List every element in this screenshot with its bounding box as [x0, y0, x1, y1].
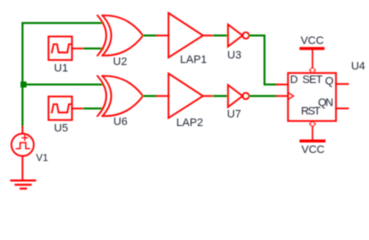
svg-text:U1: U1 — [54, 63, 68, 75]
wire U5 output stub — [72, 108, 84, 110]
XOR gate U6 — [98, 76, 144, 116]
VCC symbol bottom (RST) — [301, 121, 324, 141]
junction dot — [21, 82, 27, 88]
svg-text:SET: SET — [302, 74, 322, 86]
svg-text:QN: QN — [318, 97, 333, 109]
clock input triangle — [288, 93, 294, 100]
wire top horizontal to U2 top input — [23, 22, 104, 24]
ground — [11, 181, 35, 189]
svg-text:VCC: VCC — [301, 144, 324, 156]
svg-text:U4: U4 — [351, 61, 365, 73]
buffer LAP1 — [169, 13, 204, 58]
inverter U7 — [228, 85, 249, 107]
wire U6 output — [144, 95, 157, 97]
wire junction horizontal to U6 top input — [23, 84, 104, 86]
wire U5 to U6 — [84, 108, 103, 110]
XOR gate U2 — [98, 15, 144, 55]
voltage source V1 — [11, 127, 33, 180]
VCC symbol top (SET) — [301, 49, 323, 73]
svg-text:U2: U2 — [113, 56, 127, 68]
svg-text:LAP2: LAP2 — [176, 117, 203, 129]
svg-text:D: D — [290, 74, 298, 86]
buffer LAP2 — [169, 74, 204, 119]
svg-text:U5: U5 — [54, 123, 68, 135]
wire LAP1 output — [203, 35, 214, 37]
svg-text:LAP1: LAP1 — [180, 54, 207, 66]
wire left vertical from top corner through junction to V1 — [22, 23, 24, 127]
flip-flop U4 body — [288, 73, 336, 121]
pin Q — [336, 83, 348, 85]
svg-text:V1: V1 — [36, 153, 49, 164]
inverter U3 — [228, 25, 249, 47]
svg-text:VCC: VCC — [301, 35, 324, 47]
svg-text:Q: Q — [325, 75, 334, 87]
wire U1 to U2 — [84, 48, 103, 50]
pulse source U1 — [49, 37, 73, 61]
pulse source U5 — [49, 97, 73, 121]
pin QN — [336, 107, 348, 109]
wire U3 output to D input — [250, 36, 277, 85]
wire U7 output to clock input — [250, 95, 277, 97]
svg-text:U6: U6 — [113, 116, 127, 128]
wire U1 output stub — [72, 48, 84, 50]
svg-text:U7: U7 — [227, 109, 241, 121]
wire U2 output — [144, 35, 157, 37]
wire LAP2 output — [203, 95, 214, 97]
svg-text:U3: U3 — [227, 49, 241, 61]
svg-text:RST: RST — [301, 106, 321, 118]
